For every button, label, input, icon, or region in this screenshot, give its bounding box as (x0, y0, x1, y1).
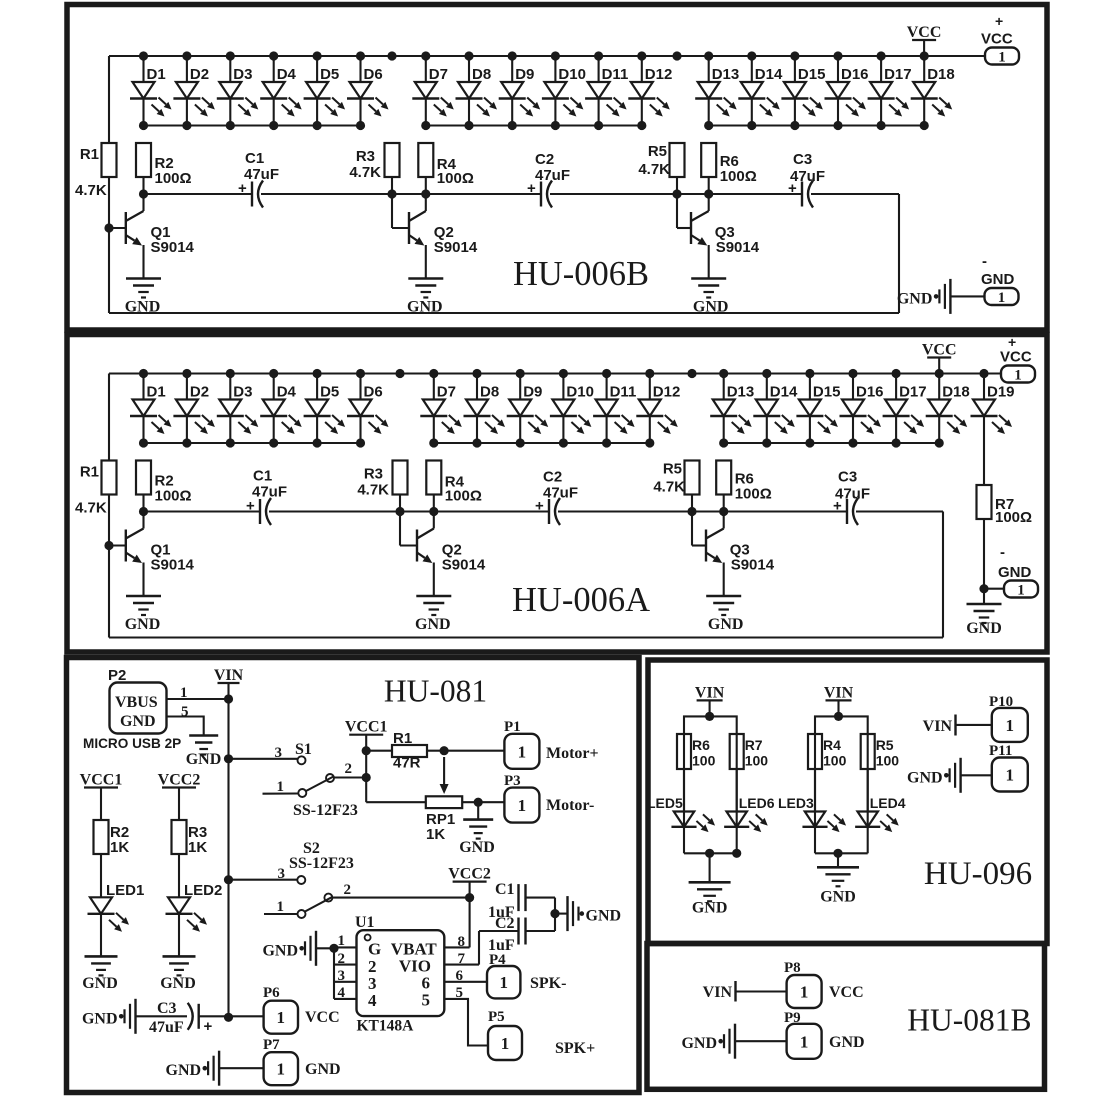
port P5 (488, 1009, 595, 1060)
label S1 pin 2 (345, 761, 353, 777)
svg-text:R5: R5 (648, 143, 667, 160)
wiper arrow RP1 (440, 757, 449, 794)
wire: VCC2 to R3 (178, 804, 180, 821)
capacitor C1 1uF (488, 881, 526, 921)
svg-text:100Ω: 100Ω (155, 170, 192, 187)
svg-text:VIN: VIN (703, 984, 733, 1001)
svg-text:D15: D15 (813, 384, 841, 401)
wire: D19 cathode to R7 (983, 416, 985, 485)
svg-text:-: - (982, 253, 987, 270)
wire: VCC top bus panel A (109, 372, 1001, 374)
svg-text:LED5: LED5 (647, 795, 683, 811)
svg-text:R5: R5 (876, 737, 894, 753)
svg-text:GND: GND (459, 839, 495, 856)
wire: S2 pin1 (264, 913, 297, 915)
wire: R1 row (366, 746, 504, 755)
svg-text:+: + (527, 180, 536, 197)
svg-text:D3: D3 (233, 66, 252, 83)
svg-text:G: G (368, 940, 381, 959)
svg-text:VCC2: VCC2 (158, 772, 201, 789)
wire: C3 to P6 (199, 1015, 264, 1017)
panel HU-006B border frame (67, 5, 1047, 331)
svg-text:GND: GND (262, 942, 298, 959)
VCC2 net symbol left (158, 772, 201, 804)
svg-text:GND: GND (160, 975, 196, 992)
switch S2 SS-12F23 (289, 840, 354, 918)
port P7 (263, 1037, 341, 1085)
IC U1 KT148A body (355, 914, 444, 1035)
svg-text:1: 1 (1017, 583, 1025, 599)
panel HU-081B border frame (647, 944, 1045, 1090)
wire: LED group 1 cathode bus panel B (144, 124, 361, 126)
svg-text:GND: GND (125, 299, 161, 316)
wire: VCC1 to R2 (100, 804, 102, 821)
resistor R2 100 panel A (136, 461, 192, 505)
wire: VIN to P10 (956, 724, 992, 726)
svg-text:D1: D1 (147, 384, 166, 401)
svg-text:GND: GND (981, 271, 1015, 288)
svg-text:1: 1 (277, 899, 285, 915)
wire: resistor bottoms panel B (144, 177, 709, 194)
svg-text:S9014: S9014 (731, 557, 775, 574)
ground symbol Q2 panel B (407, 279, 443, 316)
svg-text:VBUS: VBUS (115, 694, 158, 711)
transistor Q1 S9014 panel A (126, 512, 195, 597)
svg-text:VCC2: VCC2 (448, 866, 491, 883)
wire: VCC top bus panel B (109, 55, 985, 57)
title HU-006B (513, 255, 649, 293)
svg-text:C3: C3 (157, 1000, 177, 1017)
junction dots on top bus panel A (139, 369, 989, 378)
svg-text:100: 100 (745, 753, 769, 769)
wire: GND stub C1C2 (555, 913, 568, 915)
wire: Q3 base panel A (692, 512, 706, 546)
svg-text:4.7K: 4.7K (75, 500, 107, 517)
svg-text:R6: R6 (692, 737, 710, 753)
wire: LED group 3 cathode bus panel A (724, 442, 940, 444)
svg-text:D14: D14 (755, 66, 783, 83)
label S1 pin 1 (277, 779, 285, 795)
VIN net symbol panel HU-081 (214, 667, 244, 699)
title HU-081 (384, 674, 487, 709)
svg-text:R1: R1 (80, 146, 99, 163)
LED D5 panel B (304, 56, 346, 126)
wire: Q2 base panel B (392, 194, 409, 228)
svg-text:1: 1 (277, 1008, 286, 1027)
wire: Q1 base panel A (104, 541, 125, 550)
svg-text:S9014: S9014 (716, 239, 760, 256)
svg-text:+: + (204, 1018, 213, 1035)
svg-text:+: + (995, 13, 1003, 29)
resistor R5 4.7K panel A (653, 461, 699, 496)
wire: gnd to P11 (961, 774, 992, 776)
wire: S1 pin3 (229, 758, 298, 760)
svg-text:D7: D7 (437, 384, 456, 401)
resistor R2 1K (94, 820, 130, 856)
svg-text:4.7K: 4.7K (653, 479, 685, 496)
resistor R3 4.7K panel B (349, 143, 399, 181)
wire: S2 pin2 to VCC2 (333, 893, 474, 902)
junction dots coupling line panel A (139, 507, 728, 516)
ground symbol LED2 (160, 956, 196, 992)
GND net symbol P11 (907, 758, 961, 793)
capacitor C3 47uF panel B (788, 151, 825, 208)
wire: R2 to LED1 (100, 854, 102, 897)
port P4 (487, 952, 566, 998)
LED D2 panel A (173, 374, 215, 444)
svg-text:GND: GND (708, 616, 744, 633)
port GND panel A (998, 544, 1038, 599)
svg-text:+: + (788, 180, 797, 197)
wire: R3 to LED2 (178, 854, 180, 897)
VIN net symbol P10 (923, 715, 956, 736)
panel HU-096 border frame (648, 660, 1047, 944)
capacitor C3 47uF (149, 1000, 213, 1036)
svg-text:Motor+: Motor+ (546, 745, 599, 762)
svg-text:1: 1 (499, 973, 508, 992)
ground symbol LED1 (82, 956, 118, 992)
svg-text:R3: R3 (356, 148, 375, 165)
svg-text:HU-081B: HU-081B (907, 1003, 1031, 1038)
wire: LED group 1 cathode bus panel A (144, 442, 361, 444)
port P6 (263, 985, 340, 1034)
svg-text:GND: GND (829, 1034, 865, 1051)
LED D12 panel B (628, 56, 672, 126)
LED D3 panel B (217, 56, 258, 126)
resistor R7 100 (730, 734, 769, 769)
LED D5 panel A (304, 374, 346, 444)
svg-text:D4: D4 (277, 66, 297, 83)
LED D8 panel B (456, 56, 498, 126)
svg-text:VCC1: VCC1 (345, 719, 388, 736)
ground symbol Q3 panel B (691, 279, 728, 316)
ground symbol Q2 panel A (415, 596, 451, 633)
transistor Q3 S9014 panel A (706, 512, 775, 597)
svg-text:4: 4 (338, 985, 346, 1001)
junction dots on top bus panel B (139, 51, 929, 60)
wire: VBUS to VIN (167, 698, 229, 700)
VCC2 net symbol S2 (448, 866, 491, 898)
LED D2 panel B (173, 56, 215, 126)
LED D10 panel B (542, 56, 586, 126)
VCC1 net symbol left (80, 772, 123, 804)
svg-text:7: 7 (458, 951, 466, 967)
svg-text:3: 3 (278, 866, 286, 882)
svg-text:3: 3 (275, 745, 283, 761)
svg-text:S9014: S9014 (442, 557, 486, 574)
wire: Q1 base panel B (104, 223, 125, 232)
LED D6 panel A (347, 374, 389, 444)
svg-text:GND: GND (693, 299, 729, 316)
capacitor C3 47uF panel A (833, 469, 870, 526)
pin labels U1 left (338, 933, 346, 1001)
svg-text:LED4: LED4 (870, 795, 906, 811)
port P1 (504, 719, 599, 769)
LED D1 panel B (130, 56, 172, 126)
svg-text:D11: D11 (610, 384, 637, 401)
transistor Q2 S9014 panel A (417, 512, 486, 597)
svg-text:SPK-: SPK- (530, 975, 566, 992)
svg-text:D9: D9 (523, 384, 542, 401)
svg-text:+: + (246, 498, 255, 515)
svg-text:S9014: S9014 (151, 557, 195, 574)
svg-text:2: 2 (345, 761, 353, 777)
svg-text:100Ω: 100Ω (720, 168, 757, 185)
svg-text:D12: D12 (645, 66, 673, 83)
svg-text:VCC: VCC (922, 342, 957, 359)
GND net symbol P7 (166, 1051, 220, 1086)
svg-text:VCC1: VCC1 (80, 772, 123, 789)
svg-text:-: - (1000, 544, 1005, 561)
wire: P2 GND pin (167, 717, 204, 736)
ground symbol under R7 (966, 604, 1002, 637)
svg-text:GND: GND (82, 975, 118, 992)
wire: Q3 base panel B (677, 194, 691, 228)
wire: left branch / bottom loop panel A (109, 374, 943, 638)
capacitor C2 47uF panel A (535, 469, 578, 526)
svg-text:C3: C3 (793, 151, 812, 168)
svg-text:100Ω: 100Ω (155, 488, 192, 505)
svg-text:GND: GND (415, 616, 451, 633)
port P10 (989, 694, 1028, 742)
title HU-006A (512, 581, 650, 619)
wire: gnd to P7 (219, 1067, 264, 1069)
svg-text:1: 1 (518, 796, 527, 815)
resistor R5 4.7K panel B (638, 143, 684, 178)
extra junction dot group1 (732, 849, 741, 858)
label S2 pin 1 (277, 899, 285, 915)
LED LED6 (724, 769, 775, 853)
svg-text:HU-081: HU-081 (384, 674, 487, 709)
junction dots VIN rail (224, 694, 233, 1022)
svg-text:1: 1 (1006, 716, 1015, 735)
wire: S2 pin3 (229, 879, 298, 881)
svg-text:D8: D8 (472, 66, 491, 83)
svg-text:+: + (833, 498, 842, 515)
transistor Q1 S9014 panel B (126, 194, 195, 279)
LED D11 panel A (593, 374, 636, 444)
svg-text:D9: D9 (515, 66, 534, 83)
wire: gnd drop LED5 (709, 853, 711, 882)
svg-text:GND: GND (907, 769, 943, 786)
svg-text:S9014: S9014 (434, 239, 478, 256)
svg-text:1K: 1K (188, 839, 207, 856)
capacitor C2 1uF (488, 915, 526, 954)
svg-text:GND: GND (998, 564, 1032, 581)
svg-text:100Ω: 100Ω (437, 170, 474, 187)
svg-text:VCC: VCC (981, 31, 1013, 48)
resistor R3 1K (172, 820, 208, 856)
switch S1 SS-12F23 (293, 741, 358, 819)
LED D1 panel A (130, 374, 172, 444)
svg-text:GND: GND (586, 908, 622, 925)
svg-text:47uF: 47uF (244, 166, 279, 183)
svg-text:D12: D12 (653, 384, 681, 401)
GND net symbol C1C2 (568, 896, 622, 931)
svg-text:VIN: VIN (695, 684, 725, 701)
svg-text:KT148A: KT148A (357, 1018, 415, 1035)
svg-text:+: + (238, 180, 247, 197)
svg-text:100: 100 (823, 753, 847, 769)
svg-text:D18: D18 (927, 66, 955, 83)
ground symbol P2 (186, 736, 222, 769)
svg-text:D18: D18 (942, 384, 970, 401)
svg-text:1: 1 (1006, 766, 1015, 785)
svg-text:5: 5 (181, 704, 189, 720)
svg-text:C3: C3 (838, 469, 857, 486)
wire: GND port link panel B (950, 295, 984, 297)
port P9 (784, 1010, 865, 1059)
svg-text:D2: D2 (190, 66, 209, 83)
title HU-096 (924, 856, 1032, 892)
svg-text:+: + (535, 498, 544, 515)
svg-text:D6: D6 (364, 384, 383, 401)
svg-text:D6: D6 (364, 66, 383, 83)
svg-text:1: 1 (338, 933, 346, 949)
wire: S1 pin1 (263, 792, 298, 794)
svg-text:D15: D15 (798, 66, 826, 83)
svg-text:D2: D2 (190, 384, 209, 401)
wire: R7 to GND (983, 519, 985, 604)
pin 5 label P2 (181, 704, 189, 720)
svg-text:4.7K: 4.7K (349, 164, 381, 181)
LED D16 panel B (825, 56, 869, 126)
LED D11 panel B (585, 56, 628, 126)
svg-text:D16: D16 (856, 384, 884, 401)
svg-text:2: 2 (344, 882, 352, 898)
wire: VCC1 node vertical (362, 746, 371, 802)
capacitor C2 47uF panel B (527, 151, 570, 208)
ground symbol Q3 panel A (706, 596, 743, 633)
label S1 pin 3 (275, 745, 283, 761)
LED D7 panel B (412, 56, 454, 126)
junction dots on cathode bus panel A (139, 438, 944, 447)
svg-text:HU-096: HU-096 (924, 856, 1032, 892)
wire: group frame LED5 (684, 712, 737, 828)
svg-text:1K: 1K (426, 826, 445, 843)
title HU-081B (907, 1003, 1031, 1038)
port P8 (784, 960, 864, 1008)
svg-text:R1: R1 (80, 464, 99, 481)
svg-text:VIN: VIN (923, 718, 953, 735)
LED LED5 (647, 769, 715, 853)
LED LED1 (88, 882, 145, 956)
svg-text:D11: D11 (602, 66, 629, 83)
GND net symbol panel B (897, 279, 951, 314)
svg-text:2: 2 (338, 951, 346, 967)
svg-text:SS-12F23: SS-12F23 (293, 802, 358, 819)
svg-text:GND: GND (305, 1061, 341, 1078)
svg-text:5: 5 (422, 991, 431, 1010)
svg-text:MICRO USB 2P: MICRO USB 2P (83, 736, 181, 751)
wire: group frame LED3 (815, 712, 868, 828)
svg-text:D13: D13 (712, 66, 740, 83)
svg-text:D5: D5 (320, 66, 339, 83)
svg-text:VCC: VCC (1000, 349, 1032, 366)
svg-text:D7: D7 (429, 66, 448, 83)
wire: S1 pin2 to VCC1 node (334, 776, 366, 778)
svg-text:4.7K: 4.7K (638, 161, 670, 178)
capacitor C1 47uF panel B (238, 150, 279, 208)
ground symbol Q1 panel B (125, 279, 161, 316)
port P11 (989, 743, 1028, 792)
port P3 (504, 773, 594, 823)
svg-text:C2: C2 (535, 151, 554, 168)
connector P2 MICRO USB 2P (83, 667, 181, 751)
resistor R7 100 (977, 485, 1033, 526)
wire: pin5 to P5 (444, 999, 488, 1046)
LED D14 panel A (753, 374, 798, 444)
wire: VCC2 to pin8 (444, 898, 469, 948)
svg-text:D17: D17 (899, 384, 927, 401)
svg-text:P8: P8 (784, 960, 801, 976)
svg-text:C1: C1 (253, 468, 272, 485)
resistor R2 100 panel B (136, 143, 192, 187)
svg-text:100Ω: 100Ω (995, 509, 1032, 526)
svg-text:3: 3 (338, 968, 346, 984)
wire: gnd to P9 (735, 1040, 787, 1042)
port VCC panel B (981, 13, 1019, 66)
svg-text:D14: D14 (770, 384, 798, 401)
svg-text:1: 1 (518, 742, 527, 761)
svg-text:P5: P5 (488, 1009, 505, 1025)
ground symbol group LED3 (817, 867, 859, 905)
wire: RP1 row (366, 798, 504, 807)
VIN net symbol LED5 group (695, 684, 725, 716)
svg-text:HU-006B: HU-006B (513, 255, 649, 293)
LED D9 panel B (499, 56, 541, 126)
LED D7 panel A (420, 374, 462, 444)
svg-text:D8: D8 (480, 384, 499, 401)
LED LED4 (855, 769, 906, 853)
wire: oscillator coupling line panel A (144, 510, 944, 512)
resistor R6 100 panel B (701, 143, 757, 185)
VCC net symbol panel B (907, 24, 942, 56)
wire: C2 to pin7 (444, 931, 479, 965)
wire: gnd drop LED3 (837, 853, 839, 867)
wire: C1 to GND node (526, 898, 560, 931)
svg-text:1: 1 (800, 1032, 809, 1051)
resistor R4 100 panel A (426, 461, 482, 505)
LED D15 panel A (796, 374, 840, 444)
svg-text:GND: GND (681, 1035, 717, 1052)
svg-text:R1: R1 (393, 730, 412, 747)
wire: Q2 base panel A (400, 512, 417, 546)
svg-text:S1: S1 (295, 741, 312, 758)
svg-text:HU-006A: HU-006A (512, 581, 650, 619)
svg-text:R3: R3 (364, 466, 383, 483)
panel HU-006A border frame (67, 335, 1047, 653)
svg-text:VCC: VCC (829, 984, 864, 1001)
svg-text:R4: R4 (823, 737, 841, 753)
ground symbol RP1 (459, 820, 495, 856)
svg-text:LED3: LED3 (778, 795, 814, 811)
svg-text:100Ω: 100Ω (735, 486, 772, 503)
wire: VIN to P8 (736, 990, 787, 992)
wire: C2 row (479, 930, 555, 932)
port VCC panel A (1000, 334, 1035, 384)
svg-text:100Ω: 100Ω (445, 488, 482, 505)
svg-text:VCC: VCC (907, 24, 942, 41)
svg-text:C2: C2 (543, 469, 562, 486)
svg-text:D19: D19 (987, 384, 1015, 401)
svg-text:8: 8 (458, 934, 466, 950)
svg-text:GND: GND (407, 299, 443, 316)
junction dots on cathode bus panel B (139, 121, 929, 130)
svg-text:C2: C2 (495, 915, 515, 932)
svg-text:100: 100 (876, 753, 900, 769)
LED D19 panel A (971, 374, 1015, 435)
